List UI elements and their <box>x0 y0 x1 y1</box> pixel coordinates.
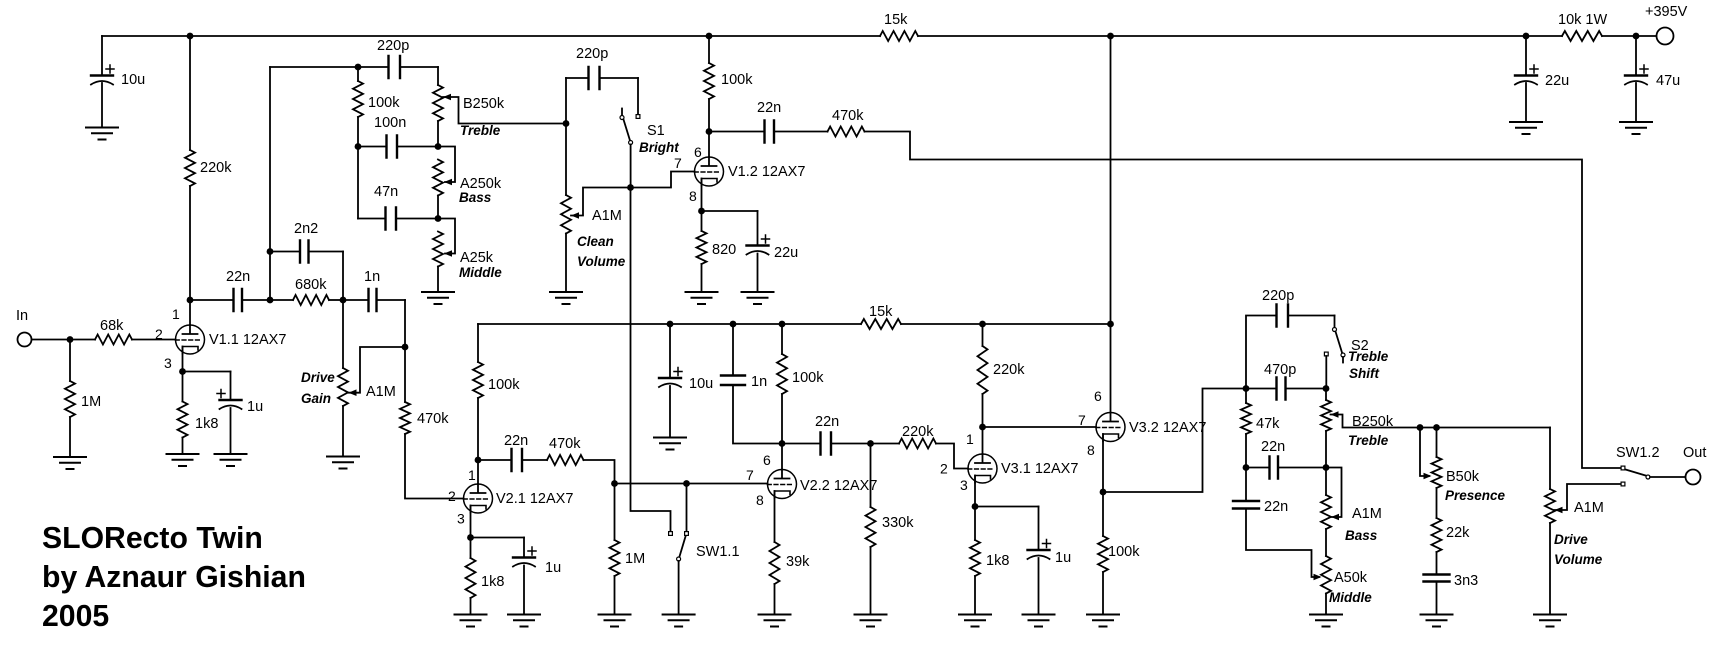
svg-text:+395V: +395V <box>1645 4 1688 20</box>
svg-text:100k: 100k <box>488 377 520 393</box>
svg-text:B50k: B50k <box>1446 469 1480 485</box>
svg-text:10u: 10u <box>689 376 713 392</box>
svg-text:22u: 22u <box>774 245 798 261</box>
svg-text:10k 1W: 10k 1W <box>1558 12 1607 28</box>
svg-text:22n: 22n <box>226 269 250 285</box>
svg-text:2: 2 <box>155 326 163 342</box>
svg-text:3: 3 <box>960 477 968 493</box>
svg-text:100k: 100k <box>721 72 753 88</box>
svg-text:2005: 2005 <box>42 600 109 633</box>
svg-text:22k: 22k <box>1446 525 1470 541</box>
svg-text:47u: 47u <box>1656 73 1680 89</box>
svg-text:V3.2 12AX7: V3.2 12AX7 <box>1129 420 1206 436</box>
svg-text:B250k: B250k <box>1352 414 1394 430</box>
svg-text:1n: 1n <box>751 374 767 390</box>
svg-text:Bass: Bass <box>1345 528 1378 543</box>
svg-text:100k: 100k <box>792 370 824 386</box>
svg-text:6: 6 <box>1094 388 1102 404</box>
svg-text:Shift: Shift <box>1349 366 1379 381</box>
svg-text:15k: 15k <box>869 304 893 320</box>
svg-text:Bright: Bright <box>639 140 679 155</box>
svg-text:7: 7 <box>746 467 754 483</box>
svg-text:Treble: Treble <box>1348 349 1389 364</box>
svg-text:100n: 100n <box>374 115 406 131</box>
svg-text:Middle: Middle <box>459 265 502 280</box>
svg-text:680k: 680k <box>295 277 327 293</box>
svg-text:8: 8 <box>1087 442 1095 458</box>
svg-text:6: 6 <box>694 144 702 160</box>
svg-text:A50k: A50k <box>1334 570 1368 586</box>
svg-text:6: 6 <box>763 452 771 468</box>
svg-text:Treble: Treble <box>460 123 501 138</box>
svg-text:3: 3 <box>457 511 465 527</box>
svg-text:8: 8 <box>756 492 764 508</box>
svg-text:V3.1 12AX7: V3.1 12AX7 <box>1001 461 1078 477</box>
svg-text:100k: 100k <box>1108 544 1140 560</box>
svg-text:by Aznaur Gishian: by Aznaur Gishian <box>42 561 306 594</box>
svg-text:A1M: A1M <box>1352 506 1382 522</box>
svg-text:22u: 22u <box>1545 73 1569 89</box>
svg-text:15k: 15k <box>884 12 908 28</box>
svg-text:22n: 22n <box>757 100 781 116</box>
svg-text:A25k: A25k <box>460 250 494 266</box>
svg-text:A1M: A1M <box>592 208 622 224</box>
svg-text:22n: 22n <box>815 414 839 430</box>
svg-text:V2.1 12AX7: V2.1 12AX7 <box>496 491 573 507</box>
svg-text:47n: 47n <box>374 184 398 200</box>
svg-text:1: 1 <box>966 431 974 447</box>
svg-text:Volume: Volume <box>1554 552 1603 567</box>
svg-text:7: 7 <box>674 155 682 171</box>
svg-text:In: In <box>16 308 28 324</box>
svg-text:A1M: A1M <box>1574 500 1604 516</box>
svg-text:220p: 220p <box>1262 288 1294 304</box>
svg-text:1k8: 1k8 <box>986 553 1009 569</box>
svg-text:3: 3 <box>164 355 172 371</box>
svg-text:SW1.1: SW1.1 <box>696 544 740 560</box>
svg-text:39k: 39k <box>786 554 810 570</box>
svg-text:1M: 1M <box>81 394 101 410</box>
svg-text:B250k: B250k <box>463 96 505 112</box>
svg-text:Presence: Presence <box>1445 488 1506 503</box>
svg-text:Treble: Treble <box>1348 433 1389 448</box>
svg-text:Drive: Drive <box>1554 532 1588 547</box>
svg-text:1u: 1u <box>247 399 263 415</box>
svg-text:2: 2 <box>448 488 456 504</box>
svg-text:220k: 220k <box>993 362 1025 378</box>
svg-text:47k: 47k <box>1256 416 1280 432</box>
svg-text:Middle: Middle <box>1329 590 1372 605</box>
svg-text:100k: 100k <box>368 95 400 111</box>
svg-text:1u: 1u <box>545 560 561 576</box>
svg-text:Bass: Bass <box>459 190 492 205</box>
svg-text:220p: 220p <box>576 46 608 62</box>
svg-text:V1.1 12AX7: V1.1 12AX7 <box>209 332 286 348</box>
svg-text:470k: 470k <box>549 436 581 452</box>
svg-text:470k: 470k <box>832 108 864 124</box>
svg-text:22n: 22n <box>504 433 528 449</box>
svg-text:SW1.2: SW1.2 <box>1616 445 1660 461</box>
svg-text:1k8: 1k8 <box>481 574 504 590</box>
svg-text:7: 7 <box>1078 412 1086 428</box>
svg-text:220k: 220k <box>200 160 232 176</box>
svg-text:820: 820 <box>712 242 736 258</box>
svg-text:470k: 470k <box>417 411 449 427</box>
svg-text:SLORecto Twin: SLORecto Twin <box>42 522 263 555</box>
svg-text:V2.2 12AX7: V2.2 12AX7 <box>800 478 877 494</box>
svg-text:Drive: Drive <box>301 370 335 385</box>
svg-text:S1: S1 <box>647 123 665 139</box>
svg-text:A1M: A1M <box>366 384 396 400</box>
svg-text:1k8: 1k8 <box>195 416 218 432</box>
svg-text:2: 2 <box>940 461 948 477</box>
svg-text:Out: Out <box>1683 445 1706 461</box>
svg-text:1M: 1M <box>625 551 645 567</box>
svg-text:22n: 22n <box>1261 439 1285 455</box>
svg-text:10u: 10u <box>121 72 145 88</box>
svg-text:470p: 470p <box>1264 362 1296 378</box>
svg-text:Volume: Volume <box>577 254 626 269</box>
svg-text:Gain: Gain <box>301 391 331 406</box>
svg-text:3n3: 3n3 <box>1454 573 1478 589</box>
svg-text:330k: 330k <box>882 515 914 531</box>
svg-text:22n: 22n <box>1264 499 1288 515</box>
svg-text:68k: 68k <box>100 318 124 334</box>
svg-text:220p: 220p <box>377 38 409 54</box>
svg-text:1n: 1n <box>364 269 380 285</box>
svg-text:Clean: Clean <box>577 234 614 249</box>
svg-text:8: 8 <box>689 188 697 204</box>
svg-text:1: 1 <box>172 306 180 322</box>
svg-text:220k: 220k <box>902 424 934 440</box>
svg-text:V1.2 12AX7: V1.2 12AX7 <box>728 164 805 180</box>
svg-text:1u: 1u <box>1055 550 1071 566</box>
svg-text:1: 1 <box>468 467 476 483</box>
svg-text:2n2: 2n2 <box>294 221 318 237</box>
